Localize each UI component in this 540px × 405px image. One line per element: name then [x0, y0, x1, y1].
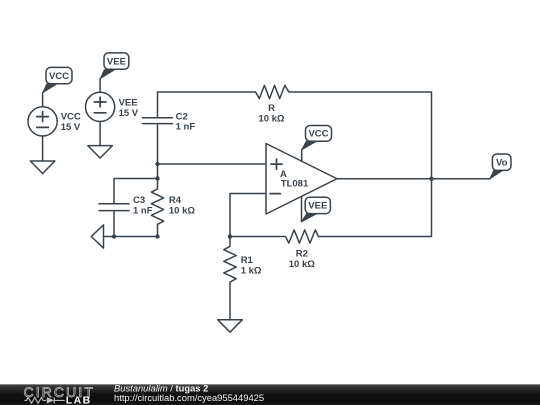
svg-text:1 kΩ: 1 kΩ: [241, 265, 262, 276]
svg-text:10 kΩ: 10 kΩ: [258, 113, 284, 124]
svg-text:VCC: VCC: [61, 112, 81, 123]
svg-text:15 V: 15 V: [61, 122, 81, 133]
svg-text:10 kΩ: 10 kΩ: [169, 205, 195, 216]
svg-text:R1: R1: [241, 255, 254, 266]
svg-text:1 nF: 1 nF: [133, 205, 153, 216]
svg-text:R: R: [268, 103, 275, 114]
svg-text:1 nF: 1 nF: [176, 122, 196, 133]
svg-text:VCC: VCC: [308, 128, 328, 139]
svg-text:VEE: VEE: [308, 201, 327, 212]
svg-text:R4: R4: [169, 195, 182, 206]
svg-text:TL081: TL081: [281, 179, 309, 190]
svg-text:15 V: 15 V: [119, 108, 139, 119]
svg-text:10 kΩ: 10 kΩ: [289, 259, 315, 270]
svg-text:VCC: VCC: [49, 71, 69, 82]
svg-text:VEE: VEE: [107, 57, 126, 68]
svg-text:http://circuitlab.com/cyea9554: http://circuitlab.com/cyea955449425: [114, 392, 264, 403]
svg-text:C3: C3: [133, 195, 145, 206]
svg-text:Vo: Vo: [496, 158, 508, 169]
svg-text:R2: R2: [296, 248, 308, 259]
svg-text:LAB: LAB: [66, 394, 92, 405]
svg-text:VEE: VEE: [119, 97, 138, 108]
